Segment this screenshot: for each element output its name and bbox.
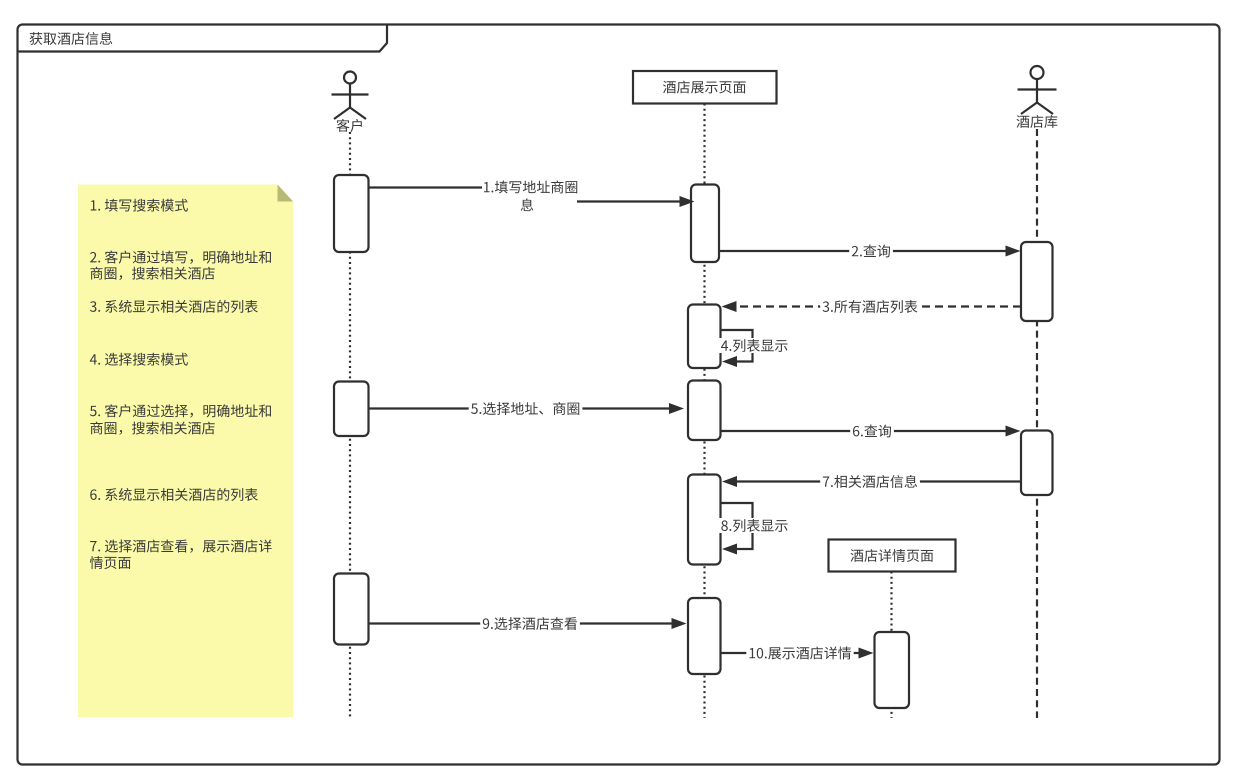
activation 酒店库 C1 — [1021, 242, 1053, 321]
lifeline 酒店详情页面 (dotted) — [890, 572, 892, 719]
actor 酒店库 (stick figure) — [1018, 66, 1057, 114]
actor label 客户 — [336, 119, 361, 132]
activation 展示页面 B2 — [688, 305, 721, 369]
message 9 line 9.选择酒店查看 — [369, 622, 673, 624]
message 2 label 2.查询 — [852, 245, 890, 258]
note text line 4: 3. 系统显示相关酒店的列表 — [90, 300, 258, 313]
activation 酒店库 C2 — [1021, 431, 1053, 496]
message 4 label 4.列表显示 — [721, 339, 788, 352]
message 6 line 6.查询 — [721, 430, 1008, 432]
lifeline 酒店展示页面 (dotted) — [703, 104, 705, 719]
message 5 line 5.选择地址、商圈 — [369, 407, 671, 409]
object label 酒店展示页面 — [663, 81, 746, 94]
message 8 label 8.列表显示 — [721, 519, 787, 532]
message 1 label 1.填写地址商圈 — [484, 180, 577, 193]
sticky note body — [78, 185, 293, 718]
message 1 line (right segment with arrowhead) — [577, 200, 681, 202]
message 3 label 3.所有酒店列表 — [823, 300, 918, 313]
message 10 label 10.展示酒店详情 — [750, 646, 852, 659]
message 10 line 10.展示酒店详情 — [721, 652, 861, 654]
message 4 self-call loop — [721, 330, 753, 362]
frame title tab — [19, 25, 388, 52]
activation 展示页面 B3 — [688, 381, 721, 441]
note text line 2: 2. 客户通过填写，明确地址和 — [90, 251, 271, 264]
message 9 label 9.选择酒店查看 — [483, 617, 577, 630]
message 1 line (left segment) — [369, 186, 483, 188]
frame title 获取酒店信息 — [30, 32, 113, 45]
note text line 7: 商圈，搜索相关酒店 — [90, 421, 214, 434]
message 7 label 7.相关酒店信息 — [823, 475, 917, 488]
note text line 10: 情页面 — [90, 556, 131, 569]
note text line 5: 4. 选择搜索模式 — [90, 353, 188, 366]
message 7 line 7.相关酒店信息 — [736, 480, 1021, 482]
note text line 6: 5. 客户通过选择，明确地址和 — [90, 404, 271, 417]
activation 展示页面 B5 — [688, 598, 721, 674]
sticky note folded corner — [278, 185, 294, 202]
message 1 label line2 息 — [521, 198, 534, 211]
lifeline 客户 (dotted) — [349, 132, 351, 718]
object box 酒店详情页面 — [829, 540, 956, 572]
message 2 line 2.查询 — [719, 250, 1007, 252]
message 6 label 6.查询 — [853, 425, 891, 438]
activation 客户 A3 — [334, 574, 369, 645]
note text line 8: 6. 系统显示相关酒店的列表 — [90, 488, 258, 501]
message 3 dashed return 3.所有酒店列表 — [736, 305, 1021, 307]
actor label 酒店库 — [1016, 115, 1057, 128]
activation 客户 A2 — [334, 382, 369, 437]
note text line 3: 商圈，搜索相关酒店 — [90, 267, 214, 280]
note text line 1: 1. 填写搜索模式 — [91, 199, 188, 212]
note text line 9: 7. 选择酒店查看，展示酒店详 — [90, 539, 271, 552]
lifeline 酒店库 (dashed) — [1036, 129, 1038, 718]
actor 客户 (stick figure) — [332, 72, 369, 120]
activation 客户 A1 — [334, 175, 369, 252]
object box 酒店展示页面 — [633, 71, 777, 104]
activation 详情页面 D1 — [875, 632, 910, 708]
activation 展示页面 B4 — [688, 475, 721, 565]
object label 酒店详情页面 — [850, 549, 933, 562]
message 8 self-call loop — [721, 503, 753, 549]
message 5 label 5.选择地址、商圈 — [471, 402, 579, 415]
activation 展示页面 B1 — [691, 185, 719, 263]
